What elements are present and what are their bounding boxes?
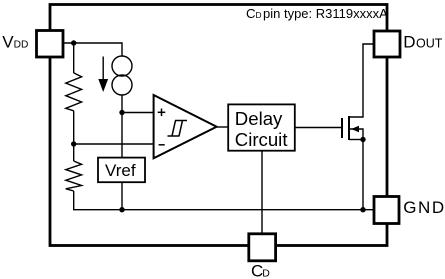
svg-text:GND: GND	[403, 198, 445, 217]
svg-text:Vref: Vref	[105, 161, 136, 180]
svg-text:DD: DD	[14, 40, 29, 51]
svg-text:D: D	[403, 32, 415, 51]
svg-text:pin type: R3119xxxxA: pin type: R3119xxxxA	[263, 6, 388, 21]
svg-text:Circuit: Circuit	[235, 129, 289, 150]
svg-text:OUT: OUT	[416, 36, 443, 50]
svg-text:D: D	[256, 10, 262, 20]
svg-text:Delay: Delay	[235, 108, 283, 129]
svg-text:D: D	[262, 267, 270, 279]
svg-text:C: C	[246, 6, 256, 21]
svg-text:V: V	[2, 33, 14, 52]
